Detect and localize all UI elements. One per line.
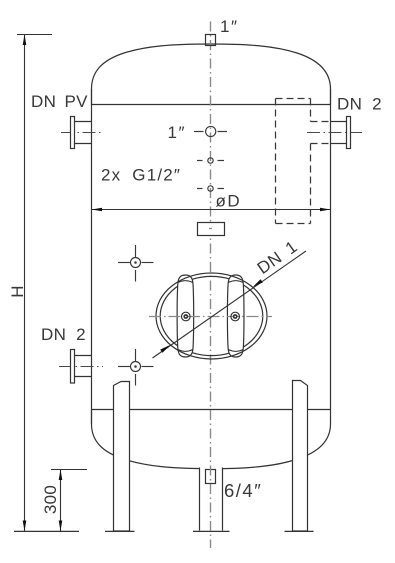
svg-text:DN PV: DN PV [31,92,88,111]
svg-text:300: 300 [41,485,60,514]
svg-text:1″: 1″ [220,17,238,36]
svg-text:6/4″: 6/4″ [224,480,262,501]
svg-text:DN 2: DN 2 [337,95,382,114]
svg-text:øD: øD [216,192,242,211]
svg-text:1″: 1″ [168,123,186,142]
svg-text:2x G1/2″: 2x G1/2″ [101,166,181,185]
svg-text:DN 2: DN 2 [41,325,86,344]
svg-text:H: H [8,285,27,298]
